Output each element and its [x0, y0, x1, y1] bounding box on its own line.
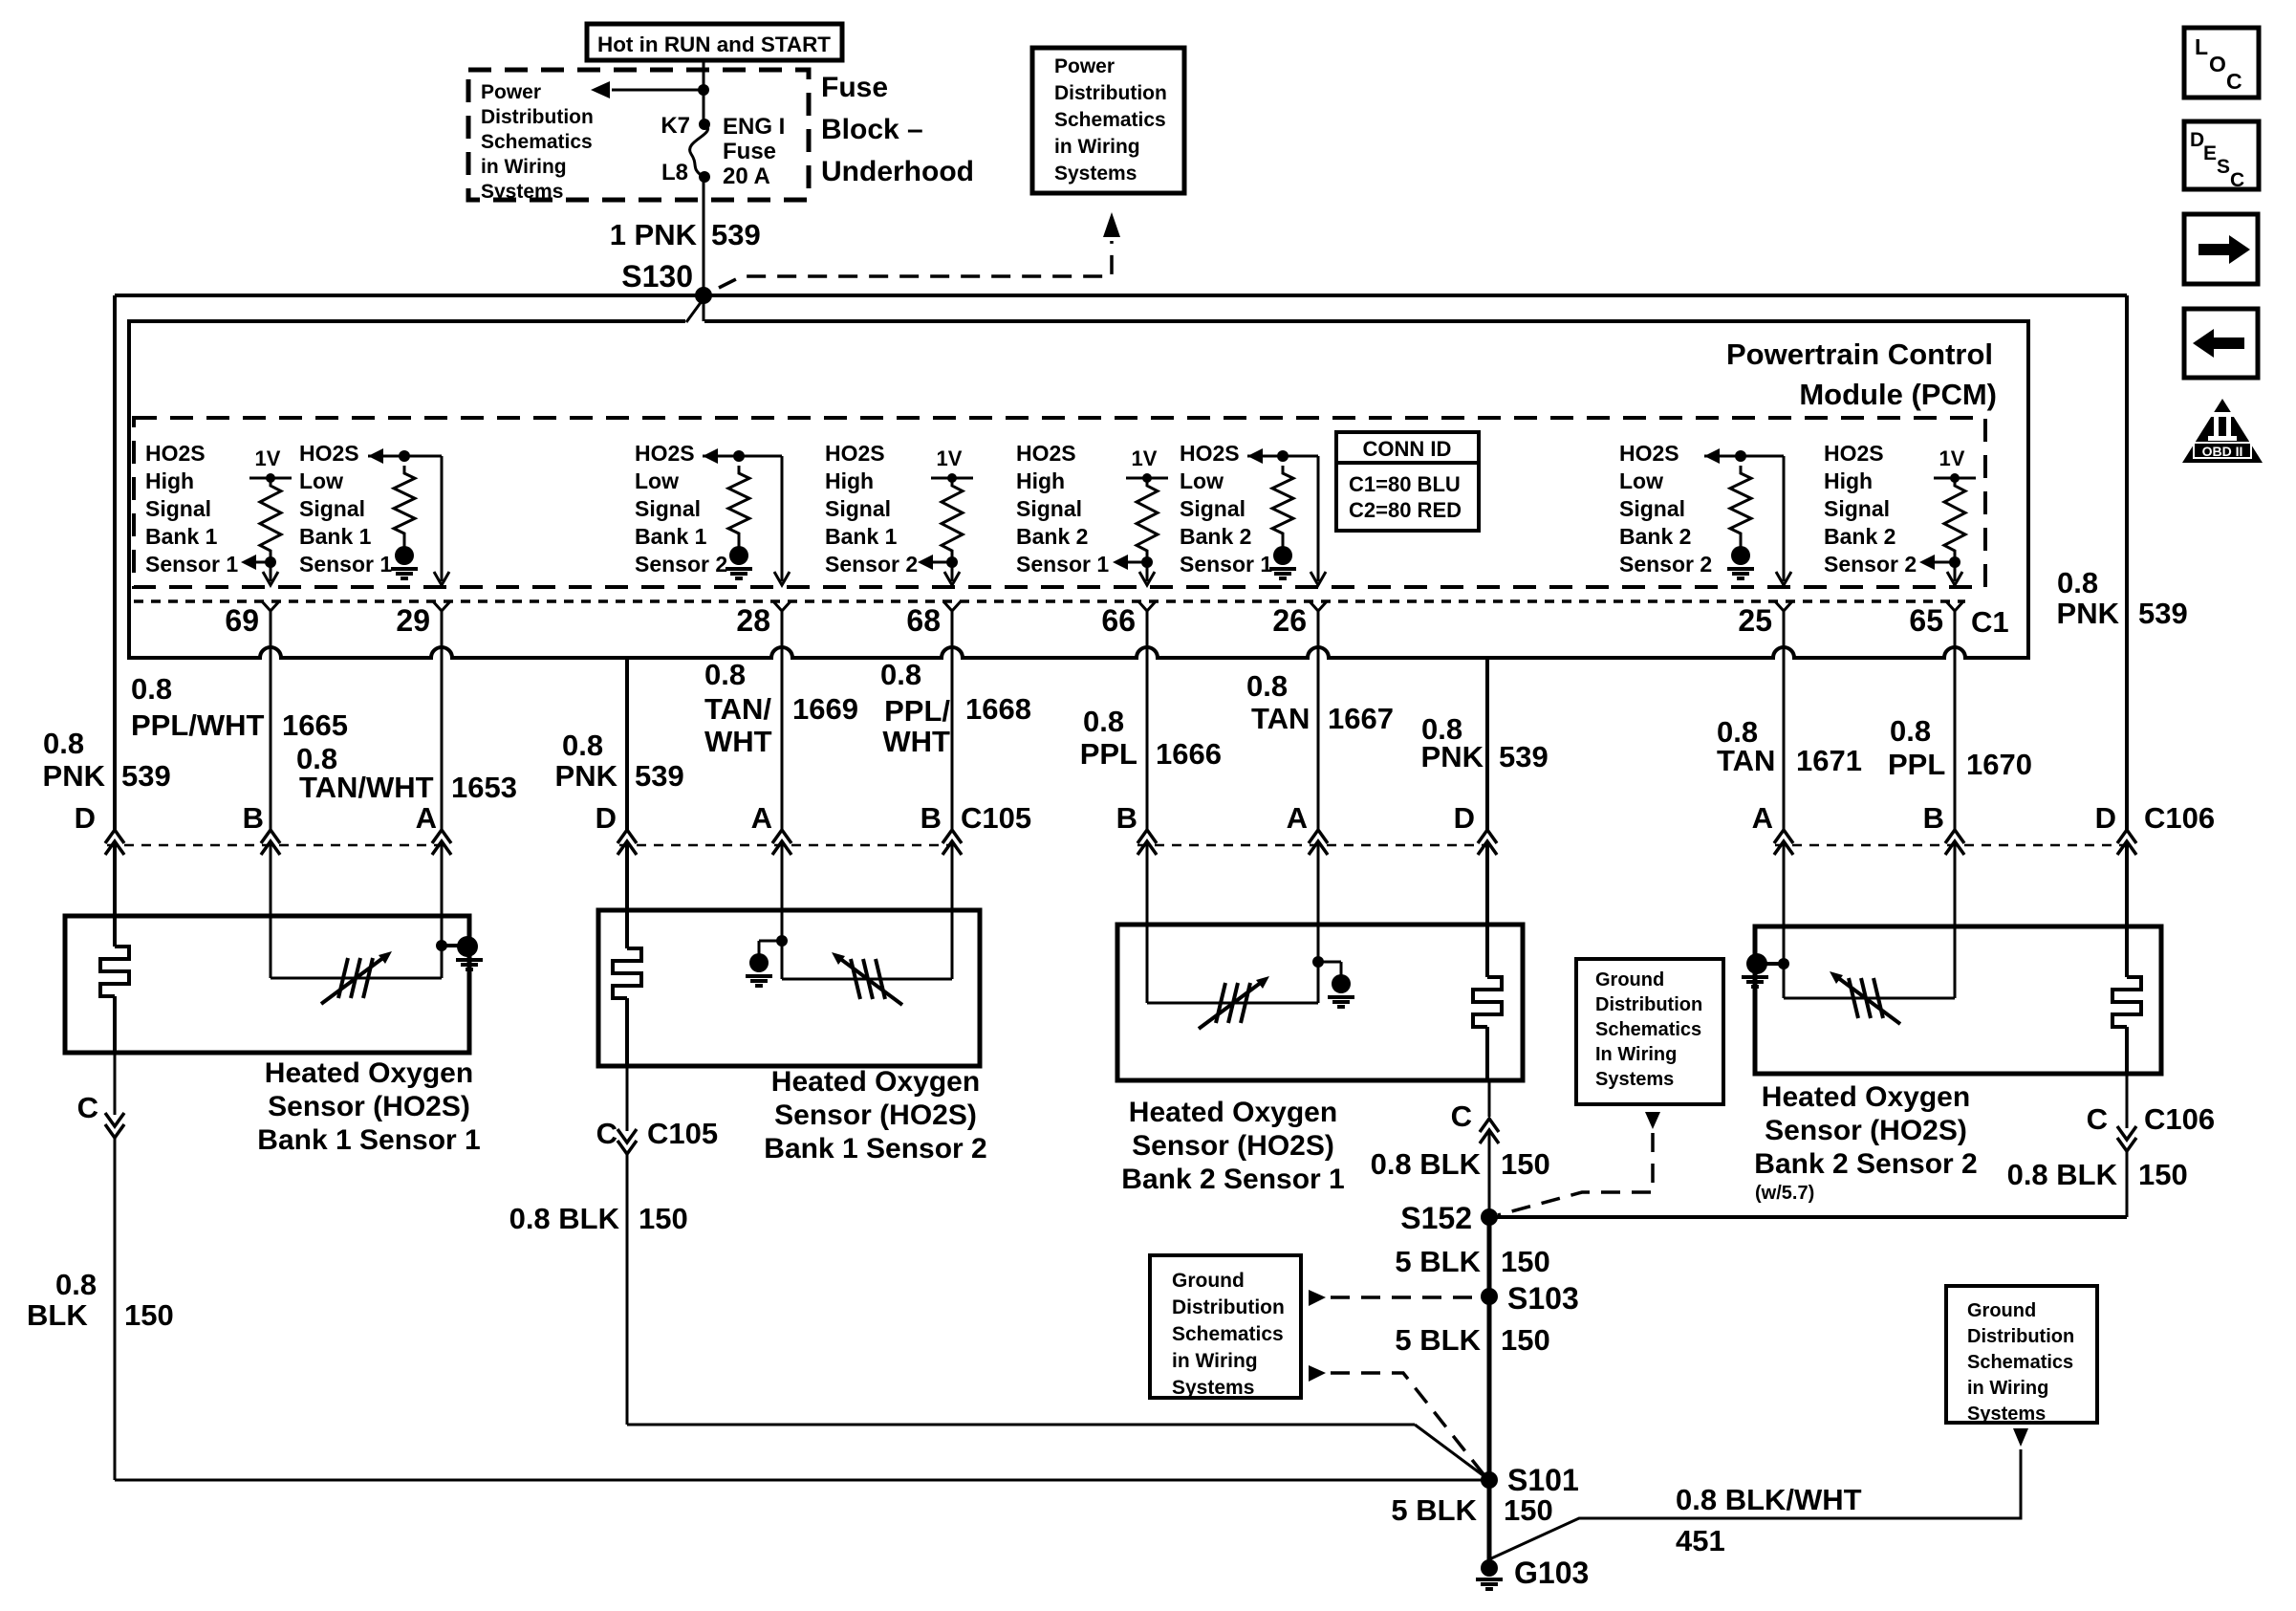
svg-text:150: 150: [1501, 1147, 1550, 1181]
icon: left arrow: [2184, 309, 2258, 378]
PCM cell: HO2S High Signal Bank 2 Sensor 1 (pin 66) with pull-up resistor R5 to 1V: [1016, 441, 1168, 585]
wire: HO2S B2S1 pin C BLK 150 to S152: [1480, 1080, 1499, 1217]
svg-text:L: L: [2195, 34, 2208, 59]
wire label: 0.8 PPL/WHT 1668: [880, 658, 1031, 758]
svg-text:Bank 2 Sensor 2: Bank 2 Sensor 2: [1754, 1148, 1977, 1180]
svg-text:D: D: [75, 801, 96, 835]
PCM pin 69 (connector C1) with boundary chevron: [225, 601, 279, 638]
wire label: 5 BLK 150 (S152-S103): [1395, 1245, 1549, 1278]
svg-text:Bank 1: Bank 1: [299, 524, 372, 549]
dashed reference line from ground box to splice S103: [1309, 1290, 1477, 1306]
svg-text:O: O: [2209, 52, 2226, 76]
svg-text:Systems: Systems: [1967, 1404, 2046, 1425]
wire label: 0.8 TAN 1671: [1717, 715, 1862, 777]
icon: OBD II triangle: [2182, 399, 2263, 463]
wire: HO2S B1S2 pin C BLK 150 to S101: [617, 1066, 1489, 1480]
svg-text:0.8 BLK: 0.8 BLK: [1371, 1147, 1482, 1181]
dashed reference line from S130 to power distribution box: [719, 212, 1120, 288]
svg-text:Signal: Signal: [145, 496, 211, 521]
svg-text:HO2S: HO2S: [1619, 441, 1679, 466]
svg-text:Schematics: Schematics: [1967, 1352, 2073, 1373]
svg-text:Fuse: Fuse: [723, 139, 776, 164]
svg-text:Schematics: Schematics: [1595, 1019, 1701, 1040]
svg-text:1667: 1667: [1328, 702, 1394, 735]
svg-text:High: High: [145, 468, 194, 493]
svg-text:150: 150: [124, 1298, 174, 1332]
sensing element HO2S B1S2: [782, 910, 952, 1005]
svg-text:Heated Oxygen: Heated Oxygen: [1129, 1097, 1337, 1128]
svg-text:CONN ID: CONN ID: [1363, 437, 1452, 461]
svg-text:C: C: [77, 1091, 98, 1124]
svg-text:WHT: WHT: [704, 725, 772, 758]
wire label: 0.8 BLK 150 (B2S1): [1371, 1147, 1550, 1181]
wire: pin25 TAN 1671 from PCM to sensor connector: [1774, 611, 1793, 926]
connector line: HO2S Bank2 Sensor1 connector C105: [1137, 844, 1491, 847]
svg-text:C: C: [1451, 1099, 1472, 1133]
dashed reference line from ground box to splice S101: [1309, 1365, 1484, 1474]
svg-text:PNK: PNK: [2057, 597, 2120, 630]
svg-text:0.8: 0.8: [1083, 705, 1124, 738]
svg-text:C2=80 RED: C2=80 RED: [1349, 498, 1462, 522]
svg-text:1 PNK: 1 PNK: [610, 218, 698, 251]
svg-text:in Wiring: in Wiring: [1054, 136, 1140, 158]
svg-text:Systems: Systems: [1172, 1377, 1254, 1399]
svg-text:Bank 1 Sensor 1: Bank 1 Sensor 1: [257, 1124, 480, 1156]
svg-text:PNK: PNK: [555, 759, 618, 793]
svg-text:Bank 2: Bank 2: [1824, 524, 1895, 549]
svg-text:Heated Oxygen: Heated Oxygen: [265, 1057, 473, 1089]
svg-text:Sensor (HO2S): Sensor (HO2S): [1132, 1130, 1334, 1162]
svg-text:Schematics: Schematics: [481, 131, 593, 153]
svg-text:TAN: TAN: [1717, 744, 1775, 777]
svg-text:Sensor 2: Sensor 2: [1824, 552, 1917, 577]
svg-text:66: 66: [1101, 603, 1136, 638]
label box: Hot in RUN and START: [587, 24, 842, 60]
svg-text:D: D: [596, 801, 617, 835]
svg-text:OBD II: OBD II: [2202, 444, 2243, 459]
wire label: 0.8 PNK 539 (right bus): [2057, 566, 2188, 630]
svg-text:C: C: [596, 1117, 617, 1150]
PCM cell: HO2S High Signal Bank 1 Sensor 1 (pin 69) with pull-up resistor R1 to 1V: [145, 441, 292, 585]
svg-text:HO2S: HO2S: [1824, 441, 1884, 466]
wire: pin66 PPL 1666 from PCM to sensor connector: [1137, 611, 1157, 925]
svg-text:Sensor 2: Sensor 2: [825, 552, 918, 577]
svg-text:HO2S: HO2S: [299, 441, 359, 466]
svg-text:Power: Power: [481, 81, 541, 103]
svg-text:D: D: [2190, 129, 2204, 151]
wire: pin69 PPL/WHT 1665 from PCM to sensor connector: [261, 611, 280, 916]
svg-text:Block –: Block –: [821, 114, 923, 145]
splice S101: [1481, 1463, 1579, 1497]
svg-text:B: B: [243, 801, 264, 835]
wire: pin26 TAN 1667 from PCM to sensor connector: [1309, 611, 1328, 925]
svg-text:1665: 1665: [282, 708, 348, 742]
svg-text:0.8: 0.8: [131, 672, 172, 706]
icon: LOC: [2184, 28, 2259, 98]
svg-text:Bank 2: Bank 2: [1016, 524, 1088, 549]
svg-text:HO2S: HO2S: [1180, 441, 1240, 466]
wire: right PNK 539 bus down to HO2S B2S2 pin D: [2117, 295, 2136, 926]
wire label: 0.8 BLK 150 (B2S2): [2007, 1158, 2188, 1191]
svg-text:In Wiring: In Wiring: [1595, 1044, 1677, 1065]
svg-text:Sensor 2: Sensor 2: [635, 552, 727, 577]
svg-text:Low: Low: [1619, 468, 1663, 493]
PCM pin 26 (connector C1) with boundary chevron: [1272, 601, 1327, 638]
svg-text:BLK: BLK: [27, 1298, 88, 1332]
svg-text:Bank 2: Bank 2: [1619, 524, 1691, 549]
svg-text:C105: C105: [647, 1117, 718, 1150]
svg-text:Bank 1 Sensor 2: Bank 1 Sensor 2: [764, 1133, 986, 1165]
svg-text:A: A: [751, 801, 772, 835]
label: Heated Oxygen Sensor (HO2S) Bank 1 Sensor 2: [764, 1066, 986, 1165]
svg-text:29: 29: [396, 603, 430, 638]
svg-text:69: 69: [225, 603, 259, 638]
heater element HO2S B1S2: [613, 910, 641, 1066]
wire label: 0.8 PPL/WHT 1665: [131, 672, 348, 742]
wire label: 1 PNK 539: [610, 218, 761, 251]
svg-text:B: B: [921, 801, 942, 835]
wire label: 0.8 TAN 1667: [1246, 669, 1394, 735]
svg-text:Signal: Signal: [299, 496, 365, 521]
svg-text:in Wiring: in Wiring: [1172, 1350, 1258, 1372]
label: Heated Oxygen Sensor (HO2S) Bank 2 Sensor 1: [1121, 1097, 1344, 1195]
wire label: 0.8 BLK 150 (B1S2): [509, 1202, 688, 1235]
svg-text:Signal: Signal: [825, 496, 891, 521]
svg-text:E: E: [2203, 142, 2217, 164]
ground connection inside HO2S B1S2: [746, 910, 788, 986]
splice S103: [1481, 1281, 1579, 1316]
svg-text:S152: S152: [1400, 1201, 1472, 1235]
svg-text:C: C: [2230, 169, 2244, 191]
wire: PNK 539 tap to HO2S B2S1 pin D: [1478, 658, 1497, 925]
svg-text:68: 68: [906, 603, 941, 638]
svg-text:1666: 1666: [1156, 737, 1222, 771]
value label: ENG I Fuse 20 A: [723, 114, 785, 189]
svg-text:C1: C1: [1971, 605, 2009, 639]
wire: HO2S B1S1 pin C BLK 150 to S101: [105, 1053, 1482, 1480]
svg-text:L8: L8: [661, 160, 688, 185]
svg-text:PNK: PNK: [1421, 740, 1484, 773]
svg-text:Heated Oxygen: Heated Oxygen: [1762, 1081, 1970, 1113]
svg-text:150: 150: [639, 1202, 688, 1235]
wire: battery feed from Hot box through fuse block: [703, 60, 705, 321]
icon: DESC: [2184, 121, 2259, 191]
svg-text:A: A: [1287, 801, 1308, 835]
svg-text:A: A: [1752, 801, 1773, 835]
svg-text:High: High: [825, 468, 874, 493]
svg-text:150: 150: [2138, 1158, 2188, 1191]
svg-text:Powertrain Control: Powertrain Control: [1726, 337, 1993, 371]
svg-text:539: 539: [1499, 740, 1549, 773]
svg-text:1670: 1670: [1966, 748, 2032, 781]
svg-text:Sensor 1: Sensor 1: [1180, 552, 1272, 577]
component box: Heated Oxygen Sensor (HO2S) Bank 1 Sensor 1: [65, 916, 469, 1053]
PCM pin 28 (connector C1) with boundary chevron: [736, 601, 791, 638]
svg-text:0.8: 0.8: [880, 658, 921, 691]
component box: Heated Oxygen Sensor (HO2S) Bank 2 Sensor 1: [1117, 925, 1523, 1080]
svg-text:PPL: PPL: [1888, 748, 1945, 781]
svg-text:Ground: Ground: [1595, 969, 1664, 991]
splice S152: [1400, 1201, 1498, 1235]
svg-text:0.8: 0.8: [1246, 669, 1288, 703]
svg-text:65: 65: [1909, 603, 1943, 638]
power distribution reference box (top right): [1032, 48, 1184, 193]
sensing element HO2S B2S1: [1147, 925, 1318, 1029]
wire label: 0.8 PNK 539 (left bus): [43, 727, 171, 793]
svg-text:PNK: PNK: [43, 759, 106, 793]
svg-text:5 BLK: 5 BLK: [1391, 1493, 1477, 1527]
svg-text:Signal: Signal: [1180, 496, 1245, 521]
wire label: 0.8 PNK 539 (B1S2 heater feed): [555, 729, 684, 793]
svg-text:0.8 BLK: 0.8 BLK: [2007, 1158, 2118, 1191]
svg-text:Distribution: Distribution: [1595, 994, 1702, 1015]
CONN ID table: C1=80 BLU, C2=80 RED: [1336, 432, 1479, 531]
ground connection inside HO2S B2S1: [1312, 925, 1354, 1007]
heater element HO2S B2S2: [2112, 926, 2141, 1074]
ground connection inside HO2S B1S1: [436, 916, 483, 978]
svg-text:Sensor 1: Sensor 1: [145, 552, 238, 577]
svg-text:High: High: [1824, 468, 1873, 493]
svg-text:Bank 2 Sensor 1: Bank 2 Sensor 1: [1121, 1164, 1344, 1195]
wire: PNK 539 bus from S130 (horizontal): [115, 294, 2127, 297]
svg-text:0.8: 0.8: [562, 729, 603, 762]
svg-text:S130: S130: [621, 259, 693, 294]
svg-text:Bank 1: Bank 1: [825, 524, 898, 549]
svg-text:Signal: Signal: [1824, 496, 1890, 521]
wire label: 5 BLK 150 (S101-G103): [1391, 1493, 1552, 1527]
ground distribution reference box (middle, to S103/S101): [1150, 1255, 1301, 1399]
heater element HO2S B2S1: [1473, 925, 1502, 1080]
svg-text:Bank 1: Bank 1: [145, 524, 218, 549]
PCM pin 25 (connector C1) with boundary chevron: [1738, 601, 1792, 638]
svg-text:G103: G103: [1514, 1556, 1589, 1590]
wire: HO2S B2S2 pin C BLK 150 to S152: [1489, 1074, 2136, 1217]
svg-text:Systems: Systems: [1054, 163, 1137, 185]
wire label: 0.8 TAN/WHT 1669: [704, 658, 858, 758]
svg-text:20 A: 20 A: [723, 163, 770, 189]
svg-text:in Wiring: in Wiring: [1967, 1378, 2048, 1399]
PCM connector C1 dashed line: [134, 599, 1965, 603]
PCM cell: HO2S Low Signal Bank 2 Sensor 2 (pin 25) with resistor R7 to ground: [1619, 441, 1791, 585]
svg-text:Signal: Signal: [1016, 496, 1082, 521]
label: Powertrain Control Module (PCM): [1726, 337, 1997, 411]
svg-text:Sensor 2: Sensor 2: [1619, 552, 1712, 577]
terminal label C (B2S2) connector C106: [2087, 1102, 2216, 1136]
ground connection inside HO2S B2S2: [1742, 926, 1789, 998]
svg-text:Signal: Signal: [1619, 496, 1685, 521]
fuse F1 ENG I 20A element: [690, 119, 719, 183]
svg-text:Heated Oxygen: Heated Oxygen: [771, 1066, 980, 1098]
svg-text:TAN: TAN: [1251, 702, 1310, 735]
svg-text:D: D: [2095, 801, 2116, 835]
fuse block dashed box (Fuse Block - Underhood): [468, 70, 809, 200]
svg-text:C: C: [2226, 69, 2242, 94]
wire label: 5 BLK 150 (S103-S101): [1395, 1323, 1549, 1357]
ground G103: [1476, 1556, 1589, 1590]
svg-text:5 BLK: 5 BLK: [1395, 1323, 1481, 1357]
svg-text:PPL/WHT: PPL/WHT: [131, 708, 265, 742]
wire: pin65 PPL 1670 from PCM to sensor connector: [1945, 611, 1964, 926]
wire label: 0.8 BLK/WHT 451: [1676, 1483, 1862, 1557]
svg-text:PPL: PPL: [1080, 737, 1137, 771]
svg-text:Schematics: Schematics: [1054, 109, 1166, 131]
splice S130 junction: [695, 287, 712, 304]
svg-text:539: 539: [2138, 597, 2188, 630]
PCM pin 29 (connector C1) with boundary chevron: [396, 601, 450, 638]
ground distribution reference box (above S152): [1576, 959, 1723, 1104]
svg-text:Low: Low: [635, 468, 679, 493]
svg-text:Signal: Signal: [635, 496, 701, 521]
svg-text:Distribution: Distribution: [1054, 82, 1167, 104]
svg-text:Hot in RUN and START: Hot in RUN and START: [597, 33, 832, 56]
wire: pin68 PPL/WHT 1668 from PCM to sensor connector: [942, 611, 962, 910]
svg-text:Bank 1: Bank 1: [635, 524, 707, 549]
svg-text:0.8: 0.8: [2057, 566, 2098, 599]
component box: Heated Oxygen Sensor (HO2S) Bank 1 Sensor 2: [598, 910, 980, 1066]
label: Fuse Block - Underhood: [821, 72, 974, 187]
sensing element HO2S B1S1: [271, 916, 442, 1004]
svg-text:1V: 1V: [1132, 446, 1158, 470]
connector line: HO2S Bank1 Sensor2 connector C105: [619, 844, 958, 847]
wire: S130 feed entering PCM loop (with splice break): [686, 297, 704, 322]
svg-text:S101: S101: [1507, 1463, 1579, 1497]
svg-text:WHT: WHT: [882, 725, 950, 758]
connector line: HO2S Bank2 Sensor2 connector C106: [1775, 844, 2134, 847]
PCM cell: HO2S High Signal Bank 1 Sensor 2 (pin 68) with pull-up resistor R4 to 1V: [825, 441, 973, 585]
label: Heated Oxygen Sensor (HO2S) Bank 2 Sensor 2 (w/5.7): [1754, 1081, 1977, 1204]
svg-text:451: 451: [1676, 1524, 1725, 1557]
svg-text:0.8: 0.8: [1890, 714, 1931, 748]
svg-text:Schematics: Schematics: [1172, 1323, 1284, 1345]
wire label: 0.8 PNK 539 (B2S1 heater feed): [1421, 712, 1549, 773]
svg-text:539: 539: [635, 759, 684, 793]
svg-text:C106: C106: [2144, 801, 2215, 835]
wire label: 0.8 BLK 150 (B1S1): [27, 1268, 174, 1332]
svg-text:5 BLK: 5 BLK: [1395, 1245, 1481, 1278]
svg-text:Bank 2: Bank 2: [1180, 524, 1251, 549]
wire: 5 BLK 150 from S152 to G103: [1487, 1217, 1492, 1568]
svg-text:PPL/: PPL/: [884, 694, 950, 728]
PCM pin 68 (connector C1) with boundary chevron: [906, 601, 961, 638]
terminal label C (B1S2) connector C105: [596, 1117, 719, 1150]
svg-text:Systems: Systems: [1595, 1069, 1674, 1090]
svg-text:Underhood: Underhood: [821, 156, 974, 187]
svg-text:0.8: 0.8: [704, 658, 746, 691]
svg-text:HO2S: HO2S: [635, 441, 695, 466]
svg-text:(w/5.7): (w/5.7): [1755, 1183, 1814, 1204]
wire: branch arrow to other power distribution: [591, 81, 709, 98]
wire label: 0.8 PPL 1666: [1080, 705, 1222, 771]
svg-text:Distribution: Distribution: [1967, 1326, 2074, 1347]
svg-text:TAN/WHT: TAN/WHT: [299, 771, 434, 804]
svg-text:1653: 1653: [451, 771, 517, 804]
svg-text:1V: 1V: [1939, 446, 1965, 470]
svg-text:C: C: [2087, 1102, 2108, 1136]
svg-text:25: 25: [1738, 603, 1772, 638]
connector line: HO2S Bank1 Sensor1 harness connector: [107, 844, 449, 847]
svg-text:Module (PCM): Module (PCM): [1799, 378, 1997, 411]
note text: Power Distribution Schematics in Wiring Systems (fuse block): [481, 81, 594, 203]
svg-text:28: 28: [736, 603, 770, 638]
svg-text:0.8: 0.8: [55, 1268, 97, 1301]
sensing element HO2S B2S2: [1784, 926, 1955, 1024]
svg-text:539: 539: [121, 759, 171, 793]
svg-text:Low: Low: [1180, 468, 1224, 493]
wire label: 0.8 PPL 1670: [1888, 714, 2032, 781]
svg-text:Systems: Systems: [481, 181, 563, 203]
svg-text:Sensor (HO2S): Sensor (HO2S): [774, 1099, 977, 1131]
svg-text:Sensor (HO2S): Sensor (HO2S): [1765, 1115, 1967, 1146]
svg-text:D: D: [1454, 801, 1475, 835]
svg-text:Sensor (HO2S): Sensor (HO2S): [268, 1091, 470, 1122]
svg-text:in Wiring: in Wiring: [481, 156, 567, 178]
svg-text:Distribution: Distribution: [1172, 1296, 1285, 1318]
svg-text:A: A: [416, 801, 437, 835]
svg-text:Ground: Ground: [1967, 1300, 2036, 1321]
svg-text:S: S: [2217, 156, 2230, 178]
svg-text:0.8 BLK: 0.8 BLK: [509, 1202, 620, 1235]
heater element HO2S B1S1: [100, 916, 129, 1053]
svg-text:High: High: [1016, 468, 1065, 493]
label: Heated Oxygen Sensor (HO2S) Bank 1 Sensor 1: [257, 1057, 480, 1156]
svg-text:Distribution: Distribution: [481, 106, 594, 128]
component box: Heated Oxygen Sensor (HO2S) Bank 2 Sensor 2: [1755, 926, 2161, 1074]
wire: pin28 TAN/WHT 1669 from PCM to sensor connector: [772, 611, 791, 910]
wire: PNK 539 tap to HO2S B1S2 pin D: [617, 658, 637, 910]
svg-text:1V: 1V: [937, 446, 963, 470]
wire: PNK 539 loop around PCM (rectangle with crossover humps): [129, 321, 2028, 658]
wire: left PNK 539 bus down to HO2S B1S1 pin D: [105, 295, 124, 916]
PCM cell: HO2S High Signal Bank 2 Sensor 2 (pin 65) with pull-up resistor R8 to 1V: [1824, 441, 1976, 585]
svg-text:K7: K7: [661, 113, 690, 139]
wire: pin29 TAN/WHT 1653 from PCM to sensor connector: [432, 611, 451, 916]
ground distribution reference box (bottom right): [1946, 1286, 2097, 1425]
svg-text:150: 150: [1501, 1323, 1550, 1357]
svg-text:B: B: [1923, 801, 1944, 835]
PCM pin 66 (connector C1) with boundary chevron: [1101, 601, 1156, 638]
svg-text:Fuse: Fuse: [821, 72, 888, 103]
wire label: 0.8 TAN/WHT 1653: [296, 742, 517, 804]
svg-text:539: 539: [711, 218, 761, 251]
PCM cell: HO2S Low Signal Bank 1 Sensor 2 (pin 28) with resistor R3 to ground: [635, 441, 790, 585]
svg-text:HO2S: HO2S: [1016, 441, 1076, 466]
PCM dashed outline box: [134, 418, 1985, 587]
svg-text:150: 150: [1504, 1493, 1553, 1527]
svg-text:C1=80 BLU: C1=80 BLU: [1349, 472, 1461, 496]
svg-text:Sensor 1: Sensor 1: [1016, 552, 1109, 577]
svg-text:1671: 1671: [1796, 744, 1862, 777]
svg-text:HO2S: HO2S: [145, 441, 206, 466]
dashed reference line from ground distribution box to S152: [1498, 1112, 1660, 1215]
svg-text:HO2S: HO2S: [825, 441, 885, 466]
svg-text:TAN/: TAN/: [704, 692, 771, 726]
wire: 0.8 BLK/WHT 451 from G103 to ground distribution: [1489, 1428, 2028, 1559]
svg-text:Low: Low: [299, 468, 343, 493]
svg-text:26: 26: [1272, 603, 1307, 638]
svg-text:S103: S103: [1507, 1281, 1579, 1316]
svg-text:Sensor 1: Sensor 1: [299, 552, 392, 577]
svg-text:B: B: [1116, 801, 1137, 835]
svg-text:1V: 1V: [255, 446, 281, 470]
svg-text:C105: C105: [961, 801, 1031, 835]
svg-text:Ground: Ground: [1172, 1270, 1245, 1292]
svg-text:C106: C106: [2144, 1102, 2215, 1136]
svg-text:150: 150: [1501, 1245, 1550, 1278]
PCM cell: HO2S Low Signal Bank 2 Sensor 1 (pin 26) with resistor R6 to ground: [1180, 441, 1326, 585]
svg-text:0.8 BLK/WHT: 0.8 BLK/WHT: [1676, 1483, 1862, 1516]
svg-text:1669: 1669: [792, 692, 858, 726]
icon: right arrow: [2184, 214, 2258, 284]
